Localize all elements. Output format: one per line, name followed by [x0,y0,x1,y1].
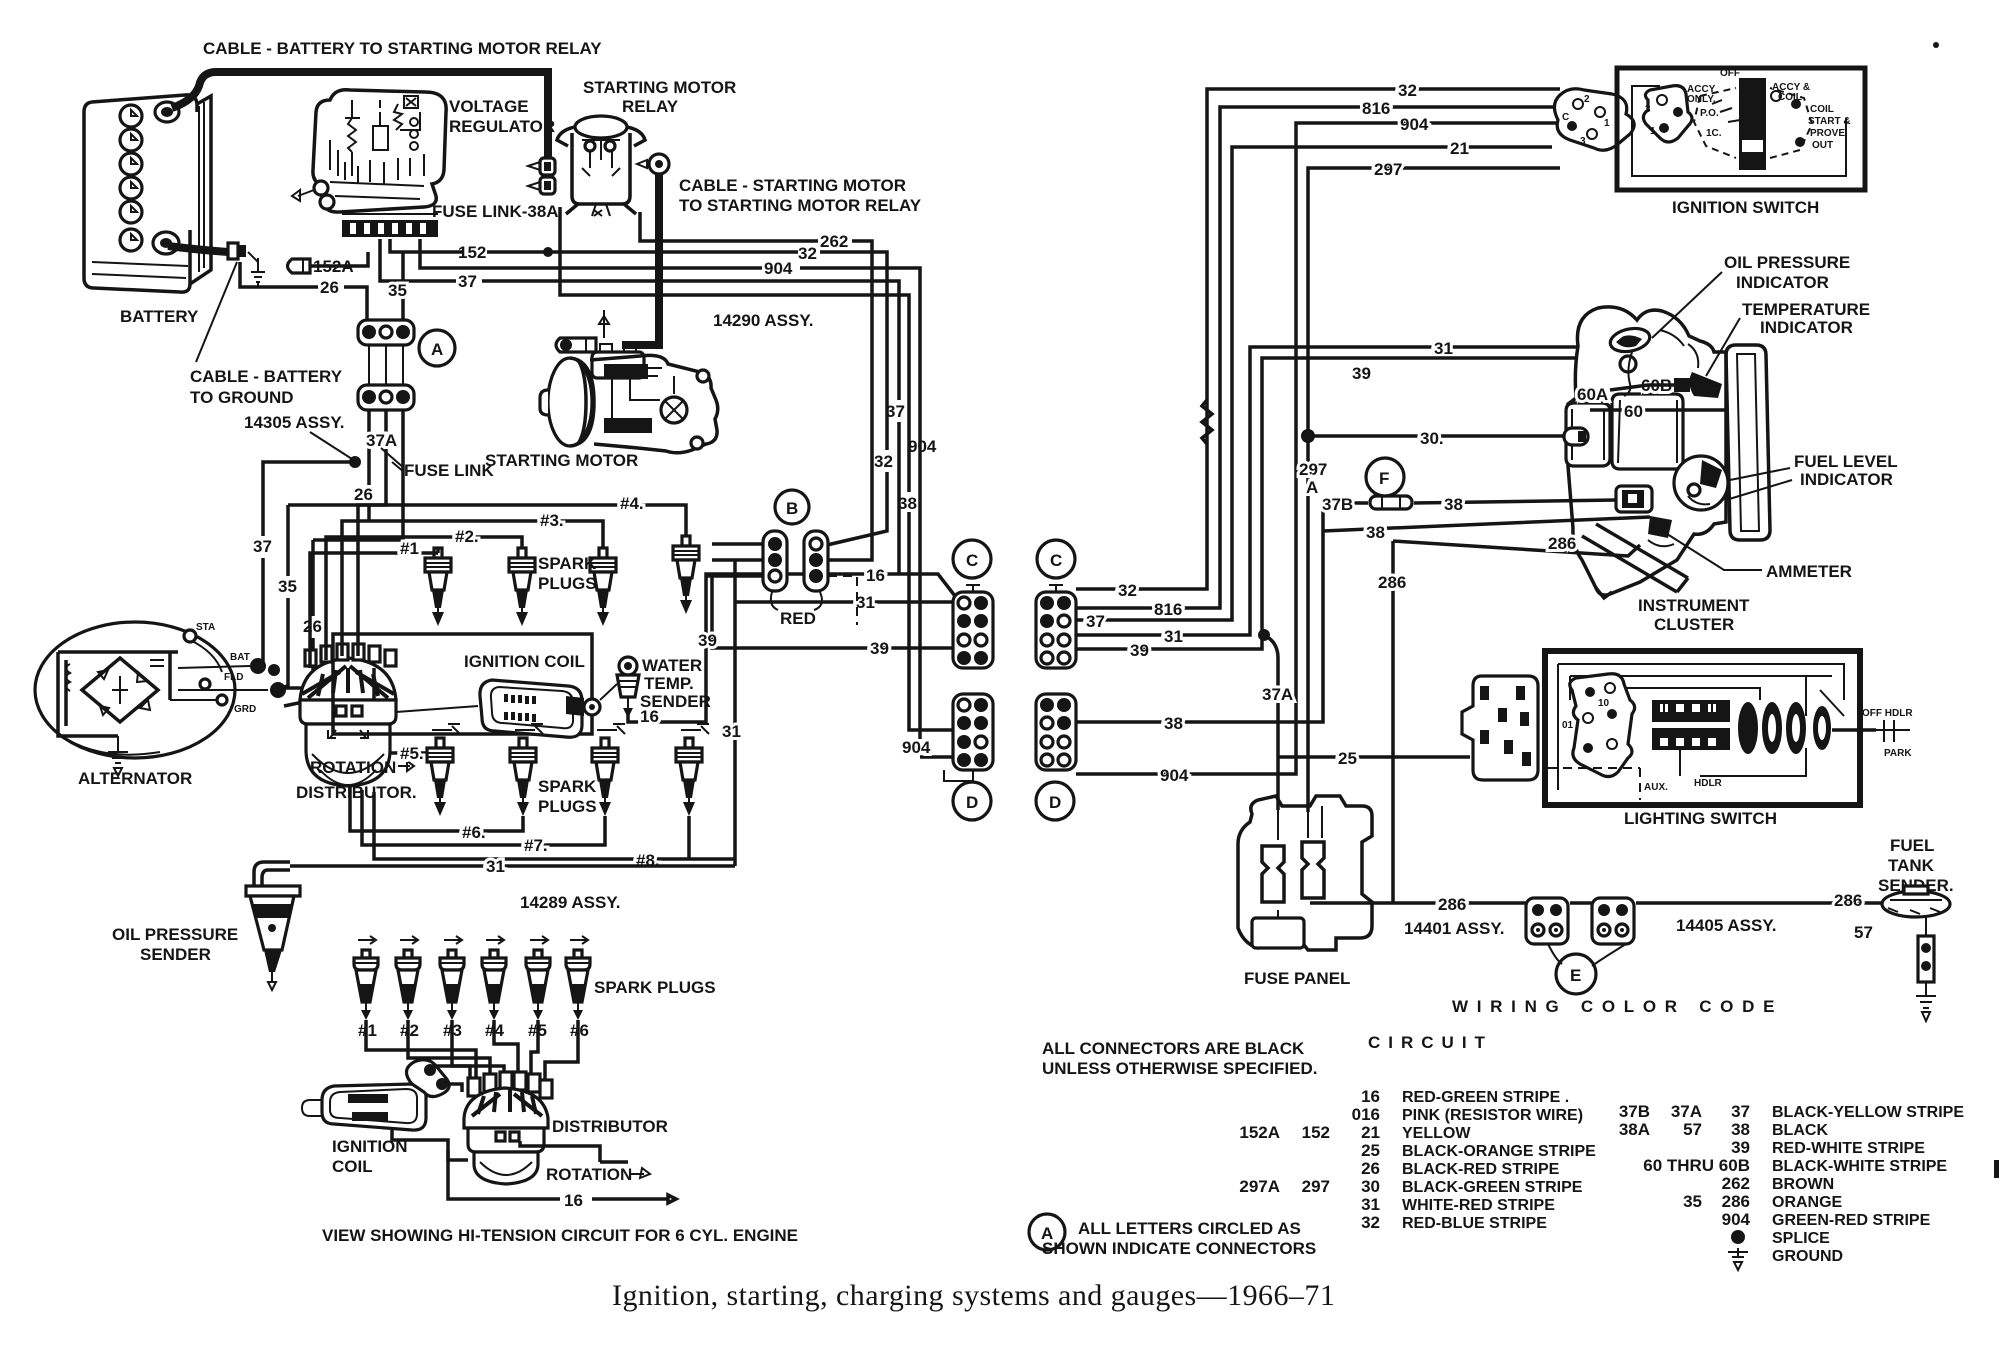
svg-text:35: 35 [388,281,407,300]
fuse link leaders [381,448,404,472]
svg-text:37B: 37B [1322,495,1353,514]
connector A block1 [358,320,414,345]
battery cells [120,105,142,251]
cluster left bracket [1566,403,1610,466]
svg-text:ROTATION: ROTATION [546,1165,632,1184]
svg-text:F: F [1379,469,1389,488]
svg-text:D: D [966,793,978,812]
svg-text:60A: 60A [1577,385,1608,404]
svg-text:38A: 38A [1619,1120,1650,1139]
svg-text:016: 016 [1352,1105,1380,1124]
relay right ring terminal [637,154,669,174]
oil pressure sender [246,862,300,990]
svg-text:PLUGS: PLUGS [538,797,597,816]
svg-text:AMMETER: AMMETER [1766,562,1852,581]
svg-text:39: 39 [1130,641,1149,660]
ignition coil body [480,680,582,737]
ignition switch key cylinder (dark) [1739,78,1766,170]
svg-text:ONLY.: ONLY. [1687,94,1716,105]
svg-text:TO STARTING MOTOR RELAY: TO STARTING MOTOR RELAY [679,196,922,215]
wire plug5 [374,668,428,753]
svg-text:38: 38 [1366,523,1385,542]
svg-text:COIL: COIL [332,1157,373,1176]
svg-text:PLUGS: PLUGS [538,574,597,593]
svg-text:ALTERNATOR: ALTERNATOR [78,769,192,788]
svg-text:286: 286 [1378,573,1406,592]
svg-text:FUEL: FUEL [1890,836,1934,855]
svg-text:FUSE LINK-38A: FUSE LINK-38A [432,202,559,221]
distributor cap dome [300,658,396,700]
svg-text:31: 31 [1434,339,1453,358]
switch contacts right [1791,99,1801,109]
connector E right [1592,898,1634,944]
wire plug2 [326,537,522,660]
svg-text:#7.: #7. [524,836,548,855]
coil to distributor wires [436,1066,470,1092]
distributor body band [300,700,396,724]
svg-text:39: 39 [1352,364,1371,383]
wire 31 horizontal to connector [735,600,953,604]
wire 30 plug [1564,428,1588,445]
ground symbol legend [1728,1248,1748,1270]
svg-text:FUSE LINK: FUSE LINK [404,461,494,480]
svg-text:STARTING MOTOR: STARTING MOTOR [485,451,638,470]
fuse panel inner wires [1278,806,1322,918]
wire plug8 [374,792,735,859]
svg-text:26: 26 [1361,1159,1380,1178]
svg-text:GREEN-RED STRIPE: GREEN-RED STRIPE [1772,1212,1931,1229]
fuse panel slots [1262,846,1284,902]
distributor 6cyl towers [468,1072,552,1098]
svg-text:HDLR: HDLR [1694,778,1723,789]
junction dot relay [543,247,553,257]
svg-text:904: 904 [1160,766,1189,785]
svg-text:INDICATOR: INDICATOR [1760,318,1853,337]
svg-text:1: 1 [1650,126,1656,137]
wire 37 from connector [1076,147,1552,620]
svg-text:#5.: #5. [400,744,424,763]
wire 31 long vertical [733,560,737,866]
spark plugs mid row [427,738,453,816]
fusible link symbol [1370,496,1412,509]
regulator internals [330,96,424,199]
connector C right [1036,585,1076,668]
alternator rectifier bridge [82,658,158,722]
svg-text:21: 21 [1450,139,1469,158]
svg-text:297A: 297A [1239,1177,1280,1196]
svg-text:RED-GREEN STRIPE .: RED-GREEN STRIPE . [1402,1089,1569,1106]
svg-text:PROVE: PROVE [1810,128,1845,139]
svg-text:30: 30 [1361,1177,1380,1196]
svg-text:TANK: TANK [1888,856,1935,875]
circle C left [953,540,991,578]
alternator field coils [66,660,164,691]
wire 37 [380,239,899,574]
svg-text:INDICATOR: INDICATOR [1800,470,1893,489]
svg-text:297: 297 [1299,460,1327,479]
svg-text:#3.: #3. [540,511,564,530]
connector D right [1036,694,1076,770]
circle C right [1037,540,1075,578]
wire 39 vertical [712,574,953,648]
wire 35 vertical [401,252,405,320]
svg-text:904: 904 [1400,115,1429,134]
battery terminal lower [153,232,179,254]
svg-text:39: 39 [870,639,889,658]
svg-text:OUT: OUT [1812,140,1833,151]
svg-text:37B: 37B [1619,1102,1650,1121]
svg-text:816: 816 [1362,99,1390,118]
wire 30 to cluster [1308,434,1564,438]
svg-text:37A: 37A [1262,685,1293,704]
regulator left terminals [292,181,334,209]
connector 152A bullet [288,259,311,273]
wire 35 to alternator [280,505,288,688]
svg-text:ROTATION: ROTATION [310,758,396,777]
svg-text:#6.: #6. [462,823,486,842]
fuel level gauge [1674,456,1728,510]
svg-text:16: 16 [1361,1087,1380,1106]
lighting switch connector left [1462,676,1538,780]
junction dot 297 [1301,429,1315,443]
svg-text:TEMPERATURE: TEMPERATURE [1742,300,1870,319]
wire 60 [1590,408,1726,412]
cluster tail band [1582,524,1688,598]
wire 31 to cluster [1076,347,1578,635]
lighting switch dashed line [1548,768,1640,800]
svg-text:38: 38 [1164,714,1183,733]
svg-text:3: 3 [1645,104,1651,115]
rotor wire [396,706,478,712]
wire plug1 [310,548,438,668]
connector D left [953,694,993,770]
RED label braces [771,592,822,610]
svg-text:16: 16 [564,1191,583,1210]
distributor 6cyl cap [464,1088,548,1128]
svg-text:25: 25 [1338,749,1357,768]
svg-text:BLACK-GREEN STRIPE: BLACK-GREEN STRIPE [1402,1179,1583,1196]
wire 37A down from connector A [288,410,403,540]
battery terminal top [155,102,179,122]
svg-text:286: 286 [1438,895,1466,914]
svg-text:16: 16 [866,566,885,585]
svg-text:37: 37 [1086,612,1105,631]
svg-text:WATER: WATER [642,656,702,675]
svg-text:RED-BLUE STRIPE: RED-BLUE STRIPE [1402,1215,1547,1232]
ignition switch box [1617,68,1865,190]
svg-text:35: 35 [278,577,297,596]
wire 16 6cyl [448,1150,676,1203]
svg-text:31: 31 [1361,1195,1380,1214]
svg-text:60: 60 [1624,402,1643,421]
alternator stator loop [58,652,178,736]
wire 32 to ignition switch [1076,89,1560,589]
svg-text:BAT: BAT [230,652,250,663]
lighting switch inner wires [1558,664,1844,790]
lighting switch right stub [1832,728,1876,732]
svg-text:39: 39 [1731,1138,1750,1157]
svg-text:297: 297 [1374,160,1402,179]
svg-text:OFF HDLR: OFF HDLR [1862,708,1913,719]
lighting switch box [1545,651,1860,805]
connector circle A [419,330,455,366]
svg-text:#4.: #4. [620,494,644,513]
svg-text:297: 297 [1302,1177,1330,1196]
svg-text:TEMP.: TEMP. [644,674,694,693]
svg-text:32: 32 [798,244,817,263]
svg-text:152: 152 [458,243,486,262]
svg-text:BROWN: BROWN [1772,1176,1834,1193]
svg-text:CABLE - STARTING MOTOR: CABLE - STARTING MOTOR [679,176,906,195]
lighting switch comb contacts [1652,700,1730,750]
svg-text:SPARK PLUGS: SPARK PLUGS [594,978,716,997]
wire 904 tall [1076,123,1560,774]
svg-text:START &: START & [1808,116,1851,127]
svg-text:UNLESS OTHERWISE SPECIFIED.: UNLESS OTHERWISE SPECIFIED. [1042,1059,1318,1078]
connector E left [1526,898,1568,944]
svg-text:37: 37 [253,537,272,556]
svg-text:BLACK-RED STRIPE: BLACK-RED STRIPE [1402,1161,1560,1178]
svg-text:VIEW SHOWING HI-TENSION CIRCUI: VIEW SHOWING HI-TENSION CIRCUIT FOR 6 CY… [322,1226,798,1245]
cable starting motor to relay (thick) [622,174,659,345]
spark plugs top row [425,548,451,626]
svg-text:BATTERY: BATTERY [120,307,199,326]
circle D left [953,782,991,820]
ignition coil frame [333,634,592,734]
svg-text:38: 38 [1444,495,1463,514]
svg-text:286: 286 [1722,1192,1750,1211]
lighting switch connector blob [1570,674,1635,777]
svg-text:14405 ASSY.: 14405 ASSY. [1676,916,1777,935]
wire 31 to oil sender [290,864,735,868]
6cyl spark plugs row [354,950,378,1020]
distributor 6cyl body [468,1128,544,1152]
svg-text:YELLOW: YELLOW [1402,1125,1471,1142]
leader line to cable-battery-to-ground text [196,262,237,362]
wire to alternator 37 [263,462,355,666]
wire 38 tall with branch [1076,503,1650,722]
leader 14305 [310,432,352,459]
alternator diodes [98,670,150,715]
wire 286 into cluster [1393,541,1640,556]
cluster bezel [1726,345,1770,540]
svg-text:60 THRU 60B: 60 THRU 60B [1643,1156,1750,1175]
wire 38 plug [1616,486,1652,512]
svg-text:IGNITION COIL: IGNITION COIL [464,652,585,671]
svg-text:01: 01 [1562,720,1574,731]
svg-text:WIRING COLOR CODE: WIRING COLOR CODE [1452,997,1783,1016]
svg-text:286: 286 [1548,534,1576,553]
svg-text:CIRCUIT: CIRCUIT [1368,1033,1493,1052]
svg-text:816: 816 [1154,600,1182,619]
svg-text:P.O.: P.O. [1700,108,1719,119]
svg-text:GRD: GRD [234,704,256,715]
wire plug6 [350,786,523,831]
svg-text:31: 31 [722,722,741,741]
svg-text:D: D [1049,793,1061,812]
wire 297 [1308,168,1560,812]
svg-text:E: E [1570,966,1581,985]
svg-text:904: 904 [908,437,937,456]
svg-text:WHITE-RED STRIPE: WHITE-RED STRIPE [1402,1197,1555,1214]
svg-text:ORANGE: ORANGE [1772,1194,1843,1211]
fuse panel body [1238,796,1372,950]
ignition switch inner loop [1632,86,1846,176]
svg-text:904: 904 [902,738,931,757]
svg-text:STARTING MOTOR: STARTING MOTOR [583,78,736,97]
ignition coil 6cyl [302,1060,449,1130]
cluster speedo window [1612,394,1683,469]
wire: relay left terminal drop [544,118,552,168]
page edge mark [1994,1160,1999,1178]
svg-text:RED-WHITE STRIPE: RED-WHITE STRIPE [1772,1140,1925,1157]
svg-text:26: 26 [303,617,322,636]
connector B right block [804,531,828,591]
svg-text:37A: 37A [1671,1102,1702,1121]
svg-text:C: C [1050,551,1062,570]
svg-text:904: 904 [1722,1210,1751,1229]
svg-text:COIL: COIL [1810,104,1834,115]
wire 39 to cluster [1076,358,1578,649]
ignition switch connector blob [1554,89,1634,150]
instrument cluster body [1568,307,1726,595]
svg-text:3: 3 [1580,136,1586,147]
svg-text:32: 32 [1361,1213,1380,1232]
battery BAT1 [84,95,211,292]
svg-text:REGULATOR: REGULATOR [449,117,555,136]
svg-text:14289 ASSY.: 14289 ASSY. [520,893,621,912]
svg-text:14401 ASSY.: 14401 ASSY. [1404,919,1505,938]
svg-text:SHOWN INDICATE CONNECTORS: SHOWN INDICATE CONNECTORS [1042,1239,1316,1258]
svg-text:32: 32 [874,452,893,471]
svg-text:ALL CONNECTORS ARE BLACK: ALL CONNECTORS ARE BLACK [1042,1039,1305,1058]
distributor lower cup [306,724,390,786]
fuel tank sender [1882,886,1950,1021]
ammeter element [1648,516,1674,546]
wire rotation [520,1141,628,1162]
wire 286 vertical [1391,541,1395,903]
svg-text:152: 152 [1302,1123,1330,1142]
water temp sender [600,657,639,718]
junction dot 14305 [349,456,361,468]
bracket under D [944,770,973,781]
voltage regulator VR1 body [313,90,446,212]
svg-text:LIGHTING SWITCH: LIGHTING SWITCH [1624,809,1777,828]
svg-text:AUX.: AUX. [1644,782,1668,793]
svg-text:152A: 152A [1239,1123,1280,1142]
svg-text:32: 32 [1118,581,1137,600]
svg-text:#1: #1 [400,539,419,558]
ignition switch rotary dashes [1694,88,1812,158]
wires into B [706,544,763,576]
svg-text:BLACK-WHITE STRIPE: BLACK-WHITE STRIPE [1772,1158,1947,1175]
svg-text:RED: RED [780,609,816,628]
wire plug4 [358,505,686,656]
wire 286 lower [1310,901,1886,905]
svg-text:DISTRIBUTOR: DISTRIBUTOR [552,1117,668,1136]
circle A note [1029,1214,1065,1250]
connector A block2 [358,385,414,410]
svg-text:31: 31 [1164,627,1183,646]
svg-text:21: 21 [1361,1123,1380,1142]
svg-text:31: 31 [486,857,505,876]
svg-text:INSTRUMENT: INSTRUMENT [1638,596,1750,615]
svg-text:10: 10 [1598,698,1610,709]
alternator terminals [184,630,196,642]
svg-text:SPARK: SPARK [538,554,597,573]
alternator ground [108,736,128,776]
svg-text:262: 262 [820,232,848,251]
svg-text:35: 35 [1683,1192,1702,1211]
svg-text:37: 37 [1731,1102,1750,1121]
svg-text:26: 26 [354,485,373,504]
svg-text:25: 25 [1361,1141,1380,1160]
oil pressure indicator lamp [1608,325,1652,396]
dashed wire from B [828,576,857,625]
splice symbol [1731,1230,1745,1244]
svg-text:FUSE PANEL: FUSE PANEL [1244,969,1350,988]
svg-text:30.: 30. [1420,429,1444,448]
svg-text:262: 262 [1722,1174,1750,1193]
svg-text:37: 37 [458,272,477,291]
svg-text:286: 286 [1834,891,1862,910]
resistor on 016 wire [1202,400,1212,444]
svg-text:DISTRIBUTOR.: DISTRIBUTOR. [296,783,417,802]
wire 816 [1076,107,1560,608]
ignition switch inner contacts [1643,86,1692,142]
svg-text:26: 26 [320,278,339,297]
wire from alternator to distributor [280,686,302,690]
6cyl plug arrows [358,936,588,944]
connector C left [953,585,993,668]
svg-text:ALL LETTERS CIRCLED AS: ALL LETTERS CIRCLED AS [1078,1219,1301,1238]
svg-text:BLACK: BLACK [1772,1122,1828,1139]
svg-text:57: 57 [1854,923,1873,942]
connector circle F [1366,458,1404,496]
alternator body [35,622,235,758]
svg-text:RELAY: RELAY [622,97,679,116]
svg-text:32: 32 [1398,81,1417,100]
svg-text:STA: STA [196,622,215,633]
fuse panel lower box [1252,918,1304,948]
svg-text:1C.: 1C. [1706,128,1722,139]
svg-text:SENDER: SENDER [140,945,211,964]
wire 152/32 [390,239,887,545]
svg-text:BLACK-YELLOW STRIPE: BLACK-YELLOW STRIPE [1772,1104,1964,1121]
svg-text:IGNITION SWITCH: IGNITION SWITCH [1672,198,1819,217]
svg-text:SPARK: SPARK [538,777,597,796]
svg-text:A: A [1306,478,1318,497]
lighting switch oval contacts [1738,702,1831,754]
wire 16 from sender [628,574,955,722]
svg-text:37: 37 [886,402,905,421]
cable battery to ground (thick) [168,246,228,252]
svg-text:SPLICE: SPLICE [1772,1230,1830,1247]
starting motor cable ring terminal [556,310,644,378]
wire 152A [310,252,368,266]
circle E [1556,954,1596,994]
svg-text:CABLE - BATTERY TO STARTING MO: CABLE - BATTERY TO STARTING MOTOR RELAY [203,39,602,58]
svg-text:CABLE - BATTERY: CABLE - BATTERY [190,367,343,386]
svg-text:FLD: FLD [224,672,243,683]
svg-text:VOLTAGE: VOLTAGE [449,97,529,116]
relay left terminals [528,158,555,194]
svg-text:C: C [1562,112,1569,123]
distributor cap towers [305,644,396,666]
starting motor M1 [540,355,718,452]
svg-text:16: 16 [640,707,659,726]
ground symbol at battery [248,252,265,286]
